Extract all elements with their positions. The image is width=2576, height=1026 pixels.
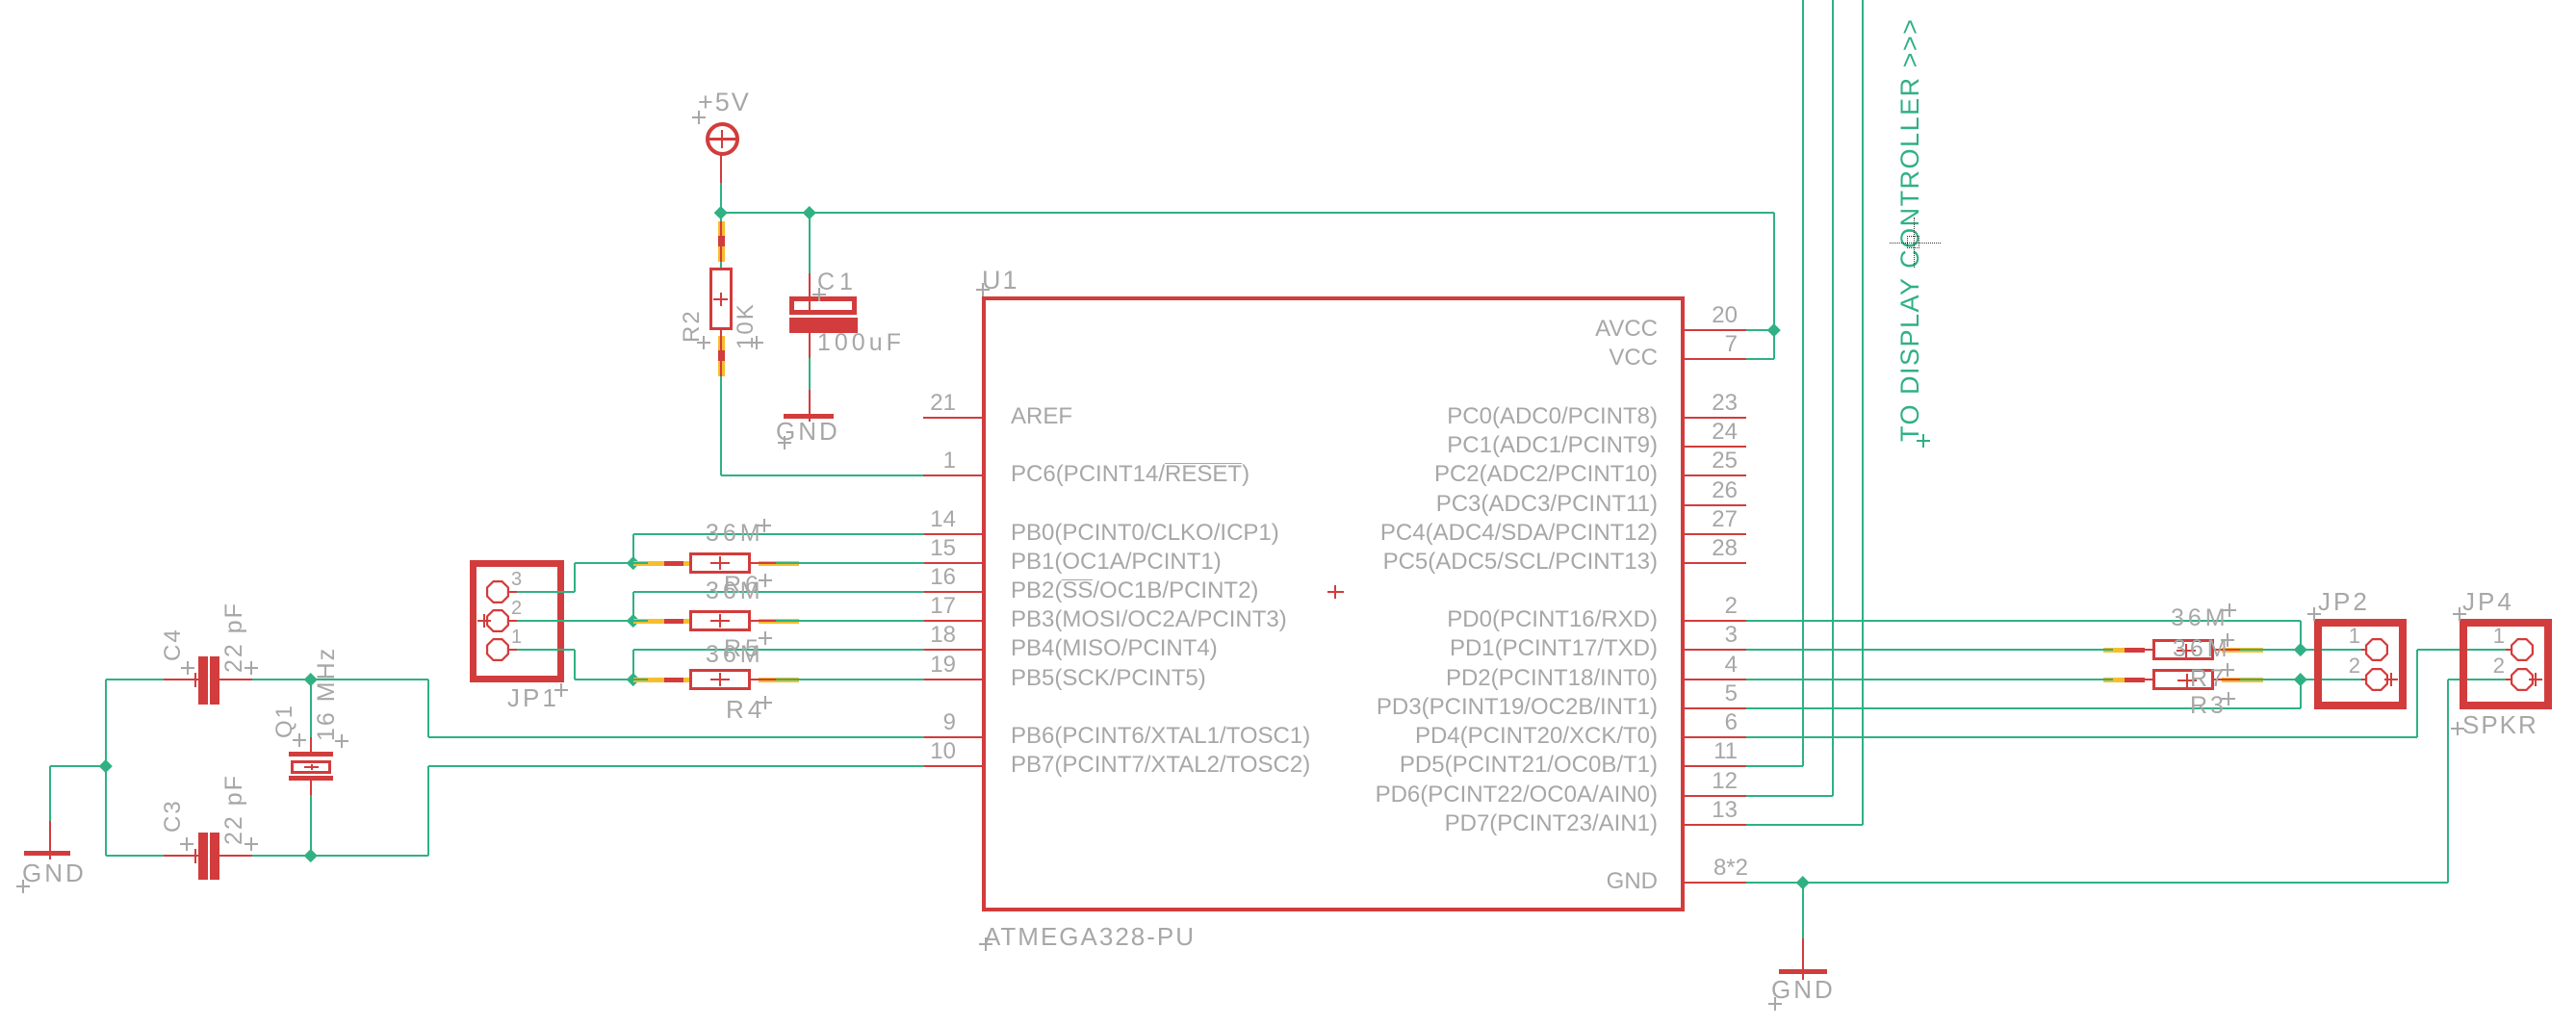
pin label PC1(ADC1/PCI	[1350, 434, 1658, 457]
pin number 4	[1670, 654, 1738, 677]
origin cross GND bottom	[1768, 1003, 1782, 1005]
pin 20 stub	[1685, 329, 1746, 331]
pin number 1	[898, 449, 956, 473]
wire PD7 net	[1746, 824, 1863, 826]
pin 18 stub	[923, 649, 982, 651]
connector JP2 body	[2314, 619, 2407, 709]
label C1	[817, 270, 858, 295]
label 36M group1	[706, 522, 764, 546]
resistor R4 right lead hatch	[751, 679, 759, 680]
label 36M R7 value	[2171, 606, 2229, 630]
pin label PB6(PCINT6/X	[1011, 725, 1310, 748]
JP4 pin number 1	[2466, 626, 2505, 647]
origin cross 10K	[750, 342, 763, 344]
JP2 pin 2 pad	[2365, 668, 2388, 691]
origin cross JP2 label	[2307, 613, 2321, 615]
origin cross 36M group3	[759, 637, 772, 639]
origin cross 36M group1	[758, 525, 771, 526]
capacitor C1 bottom lead	[809, 333, 811, 358]
pin number 24	[1670, 421, 1738, 444]
junction resistor 1 left	[627, 556, 639, 569]
label R2	[681, 309, 704, 343]
op-amp U1 ATMEGA328-PU body	[982, 296, 1685, 911]
label ATMEGA328-PU	[984, 924, 1196, 949]
wire gnd spur	[50, 765, 106, 767]
U1 center cross	[1327, 591, 1344, 593]
JP4 pin 1 pad	[2511, 638, 2534, 661]
wire +5V rail	[721, 212, 1774, 214]
capacitor C3 left lead	[164, 855, 198, 857]
net label TO DISPLAY CONTROLLER	[1897, 18, 1923, 442]
pin 14 stub	[923, 533, 982, 535]
pin 13 stub	[1685, 824, 1746, 826]
pin 15 stub	[923, 562, 982, 564]
label R4	[726, 697, 765, 722]
pin 16 stub	[923, 591, 982, 593]
wire AVCC	[1746, 329, 1774, 331]
label GND bottom	[1771, 977, 1836, 1002]
pin 12 stub	[1685, 795, 1746, 797]
capacitor C1 top plate	[789, 296, 857, 315]
label 100uF	[817, 331, 905, 355]
junction gnd spur	[99, 759, 112, 772]
junction +5V rail at R2	[714, 206, 727, 218]
origin cross +5V	[692, 116, 706, 118]
origin cross C3	[180, 843, 193, 845]
wire PD4 net	[1746, 736, 2417, 738]
pin number 12	[1670, 770, 1738, 793]
resistor R6	[689, 552, 751, 574]
pin number 10	[898, 740, 956, 763]
pin number 28	[1670, 537, 1738, 560]
origin cross ATMEGA328-PU	[979, 943, 992, 945]
wire PD6 net	[1746, 795, 1833, 797]
pin number 13	[1670, 799, 1738, 822]
pin 5 stub	[1685, 707, 1746, 709]
pin label AREF	[1011, 405, 1072, 428]
origin cross GND left	[16, 885, 30, 887]
resistor R2 bottom lead	[720, 330, 722, 380]
JP1 pin 1 pad	[486, 638, 509, 661]
capacitor C3	[198, 833, 208, 881]
transistor Q1 crystal bottom lead	[310, 780, 312, 795]
wire VCC	[1746, 358, 1774, 360]
wire JP1 pin3 to junction	[517, 591, 575, 593]
label +5V	[698, 90, 751, 115]
pin label PD0(PCINT16/	[1350, 608, 1658, 631]
pin number 2	[1670, 595, 1738, 618]
wire R3 to JP2 pin2	[2263, 679, 2361, 680]
pin label PC2(ADC2/PCI	[1350, 463, 1658, 486]
label R3	[2190, 694, 2227, 718]
pin 24 stub	[1685, 446, 1746, 448]
pin 25 stub	[1685, 475, 1746, 476]
wire R7 to JP2 pin1	[2263, 649, 2361, 651]
JP2 origin cross	[2384, 679, 2398, 680]
label 36M R3 value	[2173, 637, 2231, 661]
pin 21 stub	[923, 417, 982, 419]
wire PD3 net	[1746, 707, 2301, 709]
label 36M group2	[706, 579, 764, 603]
origin cross C1	[812, 294, 826, 295]
label 22 pF lower	[222, 774, 246, 845]
junction GND symbol	[1796, 876, 1809, 888]
wire JP1 pin1 to junction	[517, 649, 575, 651]
pin number 3	[1670, 624, 1738, 647]
origin cross C4	[181, 667, 194, 669]
pin label VCC	[1350, 346, 1658, 370]
pin label PB4(MISO/PCI	[1011, 637, 1218, 660]
label SPKR	[2462, 712, 2538, 737]
junction +5V rail at C1	[803, 206, 815, 218]
pin label PB1(OC1A/PCI	[1011, 551, 1222, 574]
pin label PB2(<span cl	[1011, 579, 1258, 603]
origin cross R3	[2222, 698, 2235, 700]
pin 23 stub	[1685, 417, 1746, 419]
pin label PD6(PCINT22/	[1350, 783, 1658, 807]
wire crystal gnd bus	[105, 680, 107, 856]
pin number 6	[1670, 711, 1738, 734]
JP1 pin number 2	[511, 599, 522, 618]
capacitor C1 bottom plate	[789, 318, 858, 333]
junction JP2 pin1	[2294, 643, 2306, 655]
pin number 18	[898, 624, 956, 647]
capacitor C4 right lead	[219, 679, 252, 680]
pin label GND	[1350, 870, 1658, 893]
label C3	[162, 799, 185, 833]
label 16 MHz	[315, 647, 339, 741]
pin number 11	[1670, 740, 1738, 763]
wire to PB6 corner	[427, 680, 429, 737]
origin cross R7	[2221, 669, 2234, 671]
label 22 pF upper	[222, 602, 246, 673]
pin label PB3(MOSI/OC2	[1011, 608, 1287, 631]
pin label PD2(PCINT18/	[1350, 667, 1658, 690]
pin label AVCC	[1350, 318, 1658, 341]
wire PD1 net	[1746, 649, 2103, 651]
JP4 origin cross	[2529, 679, 2542, 680]
pin label PB7(PCINT7/X	[1011, 754, 1310, 777]
pin number 26	[1670, 479, 1738, 502]
wire PD0 net	[1746, 620, 2301, 622]
pin 4 stub	[1685, 679, 1746, 680]
transistor Q1 crystal top lead	[310, 680, 312, 737]
pin 11 stub	[1685, 765, 1746, 767]
origin cross R2	[697, 342, 710, 344]
junction crystal bottom	[304, 849, 317, 861]
pin number 14	[898, 508, 956, 531]
JP2 pin number 2	[2322, 655, 2360, 677]
pin number 23	[1670, 392, 1738, 415]
pin number 19	[898, 654, 956, 677]
JP2 pin 1 pad	[2365, 638, 2388, 661]
transistor Q1 crystal	[289, 752, 333, 757]
pin number 27	[1670, 508, 1738, 531]
resistor R7	[2152, 639, 2214, 660]
resistor R2	[709, 268, 733, 330]
resistor R2 bottom lead hatch	[718, 336, 725, 376]
origin cross 22pF upper	[245, 667, 258, 669]
origin cross 16MHz	[335, 740, 348, 742]
pin number 7	[1670, 333, 1738, 356]
origin cross Q1	[293, 739, 306, 741]
connector JP4 body	[2460, 619, 2552, 709]
resistor R5	[689, 610, 751, 631]
label R6	[724, 574, 762, 598]
junction JP2 pin2	[2294, 673, 2306, 685]
resistor R2 top lead	[720, 213, 722, 268]
connector JP1 body	[470, 560, 564, 682]
capacitor C4	[198, 656, 208, 705]
pin number 17	[898, 595, 956, 618]
label GND below C1	[776, 419, 840, 444]
pin number 5	[1670, 682, 1738, 705]
pin label PD1(PCINT17/	[1350, 637, 1658, 660]
JP4 pin number 2	[2466, 655, 2505, 677]
label JP1	[507, 685, 559, 710]
pin 7 stub	[1685, 358, 1746, 360]
pin 1 stub	[923, 475, 982, 476]
pin 17 stub	[923, 620, 982, 622]
pin 6 stub	[1685, 736, 1746, 738]
pin label PD5(PCINT21/	[1350, 754, 1658, 777]
JP1 pin 3 pad	[486, 580, 509, 603]
JP1 pin number 1	[511, 628, 522, 647]
label C4	[162, 628, 185, 661]
JP1 pin number 3	[511, 570, 522, 589]
wire XTAL2 rail	[106, 855, 166, 857]
pin 3 stub	[1685, 649, 1746, 651]
pin 9 stub	[923, 736, 982, 738]
ground symbol below C1	[784, 414, 834, 420]
origin cross display label	[1917, 440, 1930, 442]
ground symbol bottom	[1779, 969, 1827, 975]
ground symbol left	[24, 851, 70, 857]
pin number 16	[898, 566, 956, 589]
wire PB to resistor row 3	[633, 649, 924, 651]
wire GND net	[1746, 882, 2448, 884]
wire resistor 2 to pin	[799, 620, 924, 622]
pin label PD4(PCINT20/	[1350, 725, 1658, 748]
wire VCC drop	[1773, 213, 1775, 359]
pin label PC5(ADC5/SCL	[1350, 551, 1658, 574]
JP1 origin cross	[477, 620, 491, 622]
pin label PD7(PCINT23/	[1350, 812, 1658, 835]
pin label PC0(ADC0/PCI	[1350, 405, 1658, 428]
origin cross SPKR	[2451, 728, 2464, 730]
wire to PB7 corner	[427, 766, 429, 856]
label GND left	[22, 860, 87, 885]
wire resistor 3 to pin	[799, 679, 924, 680]
resistor R5 left lead hatch	[633, 619, 689, 624]
power symbol +5V	[706, 122, 739, 156]
resistor R3	[2152, 669, 2214, 690]
pin 8*2 stub	[1685, 882, 1746, 884]
origin cross R4	[759, 702, 772, 704]
pin number 25	[1670, 449, 1738, 473]
origin cross 36M b	[2221, 639, 2234, 641]
cursor crosshair	[1890, 243, 1941, 244]
wire PB to resistor row 2	[633, 591, 924, 593]
pin number 15	[898, 537, 956, 560]
label 10K	[734, 302, 758, 349]
pin number 20	[1670, 304, 1738, 327]
pin 2 stub	[1685, 620, 1746, 622]
resistor R2 top lead hatch	[718, 221, 725, 262]
resistor R7 left lead hatch	[2103, 648, 2125, 653]
resistor R7 right lead hatch	[2214, 649, 2222, 651]
capacitor C4 left lead	[164, 679, 198, 680]
origin cross 36M a	[2223, 609, 2236, 611]
origin cross U1	[976, 289, 990, 291]
wire PD2 net	[1746, 679, 2103, 680]
pin 19 stub	[923, 679, 982, 680]
pin number 8*2	[1681, 857, 1748, 880]
pin 10 stub	[923, 765, 982, 767]
junction resistor 2 left	[627, 614, 639, 627]
junction AVCC	[1767, 323, 1780, 336]
pin label PC3(ADC3/PCI	[1350, 493, 1658, 516]
resistor R3 left lead hatch	[2103, 678, 2125, 682]
label JP4	[2462, 589, 2514, 614]
pin label PC4(ADC4/SDA	[1350, 522, 1658, 545]
origin cross 36M group2	[759, 579, 772, 581]
wire resistor 1 to pin	[799, 562, 924, 564]
pin label PB0(PCINT0/C	[1011, 522, 1279, 545]
pin 28 stub	[1685, 562, 1746, 564]
pin 26 stub	[1685, 504, 1746, 506]
wire XTAL1 rail	[106, 679, 166, 680]
origin cross JP1 label	[554, 689, 568, 691]
wire RESET net to PC6	[721, 475, 924, 476]
origin cross GND C1	[778, 442, 791, 444]
resistor R4	[689, 669, 751, 690]
origin cross 22pF lower	[245, 843, 258, 845]
label 36M group3	[706, 643, 764, 667]
resistor R6 left lead hatch	[633, 561, 689, 566]
resistor R6 right lead hatch	[751, 562, 759, 564]
junction crystal top	[304, 673, 317, 685]
wire PB to resistor row 1	[633, 533, 924, 535]
label U1	[982, 268, 1019, 294]
resistor R3 right lead hatch	[2214, 679, 2222, 680]
JP4 pin 2 pad	[2511, 668, 2534, 691]
pin label PC6(PCINT14/	[1011, 463, 1249, 486]
pin number 9	[898, 711, 956, 734]
pin label PB5(SCK/PCIN	[1011, 667, 1206, 690]
label R5	[724, 637, 762, 661]
JP2 pin number 1	[2322, 626, 2360, 647]
JP1 pin 2 pad	[486, 609, 509, 632]
label Q1	[273, 704, 296, 738]
resistor R5 right lead hatch	[751, 620, 759, 622]
capacitor C1 top lead	[809, 213, 811, 273]
origin cross JP4 label	[2453, 613, 2466, 615]
pin label PD3(PCINT19/	[1350, 696, 1658, 719]
junction resistor 3 left	[627, 673, 639, 685]
pin 27 stub	[1685, 533, 1746, 535]
resistor R4 left lead hatch	[633, 678, 689, 682]
wire JP1 pin2 to junction	[517, 620, 633, 622]
label JP2	[2318, 589, 2370, 614]
wire +5V lead	[720, 154, 722, 183]
pin number 21	[898, 392, 956, 415]
wire GND drop	[1802, 883, 1804, 938]
label R7	[2190, 667, 2227, 691]
capacitor C3 right lead	[219, 855, 252, 857]
resistor R2 center cross	[713, 298, 728, 300]
wire PD5 net	[1746, 765, 1803, 767]
